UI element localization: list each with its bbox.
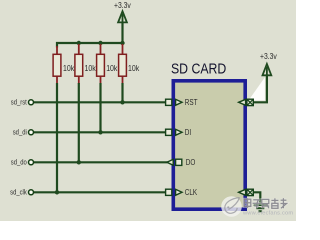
watermark logo bbox=[221, 196, 242, 217]
node sd_di terminal bbox=[29, 130, 34, 135]
junction dot sd_di/R3 bbox=[98, 130, 102, 134]
junction dot rail/R3 bbox=[98, 41, 102, 45]
wire +3.3v rail to resistor tops bbox=[57, 43, 123, 48]
node sd_clk terminal bbox=[29, 190, 34, 195]
wire sd_clk net bbox=[34, 191, 166, 193]
svg-text:CLK: CLK bbox=[185, 187, 197, 197]
pin VSS (right bottom, power) bbox=[239, 189, 254, 195]
wire sd_do net bbox=[34, 161, 168, 163]
pin CLK (input) bbox=[166, 189, 182, 195]
power symbol +3.3v (right) bbox=[263, 64, 272, 79]
wire R1 to sd_clk net bbox=[56, 83, 58, 192]
svg-text:sd_rst: sd_rst bbox=[11, 99, 27, 107]
node sd_rst terminal bbox=[29, 100, 34, 105]
pin RST (input) bbox=[166, 99, 182, 105]
svg-text:DO: DO bbox=[186, 157, 196, 167]
node sd_do terminal bbox=[29, 160, 34, 165]
svg-text:+3.3v: +3.3v bbox=[260, 51, 277, 61]
svg-text:+3.3v: +3.3v bbox=[114, 0, 131, 10]
svg-text:SD CARD: SD CARD bbox=[171, 60, 226, 76]
wire R4 to sd_rst net bbox=[121, 83, 123, 102]
wire sd_di net bbox=[34, 131, 166, 133]
label SD CARD bbox=[171, 60, 226, 76]
wire R2 to sd_do net bbox=[78, 83, 80, 162]
resistor R2 10k bbox=[75, 44, 83, 84]
wire VDD pin to +3.3v (right) bbox=[253, 66, 267, 102]
svg-text:www.elecfans.com: www.elecfans.com bbox=[242, 210, 293, 216]
pin VDD (right top, power) bbox=[239, 99, 254, 105]
power symbol +3.3v (top left) bbox=[118, 11, 127, 26]
wire VSS pin to ground bbox=[253, 192, 260, 204]
svg-text:10k: 10k bbox=[106, 64, 117, 74]
ground symbol bbox=[254, 205, 267, 211]
resistor R1 10k bbox=[53, 46, 61, 84]
svg-text:DI: DI bbox=[185, 127, 191, 137]
resistor R4 10k bbox=[119, 44, 127, 84]
junction dot rail/R2 bbox=[77, 41, 81, 45]
junction dot sd_clk/R1 bbox=[55, 190, 59, 194]
svg-text:sd_di: sd_di bbox=[13, 129, 27, 137]
junction dot sd_rst/R4 bbox=[120, 100, 124, 104]
junction dot rail/R4/+3.3v bbox=[120, 41, 124, 45]
svg-text:10k: 10k bbox=[85, 64, 96, 74]
white wedge highlight bbox=[249, 77, 265, 100]
svg-text:10k: 10k bbox=[63, 64, 74, 74]
svg-text:RST: RST bbox=[185, 97, 198, 107]
resistor R3 10k bbox=[97, 44, 105, 84]
wire from +3.3v power arrow down to rail bbox=[121, 13, 123, 43]
pin DO (output) bbox=[167, 159, 182, 165]
svg-text:sd_clk: sd_clk bbox=[10, 189, 27, 197]
wire R3 to sd_di net bbox=[99, 83, 101, 132]
pin DI (input) bbox=[166, 129, 182, 135]
wire sd_rst net bbox=[34, 101, 166, 103]
svg-text:10k: 10k bbox=[128, 64, 139, 74]
SD card component U1 body bbox=[173, 81, 245, 209]
svg-text:sd_do: sd_do bbox=[11, 159, 27, 167]
junction dot sd_do/R2 bbox=[77, 160, 81, 164]
